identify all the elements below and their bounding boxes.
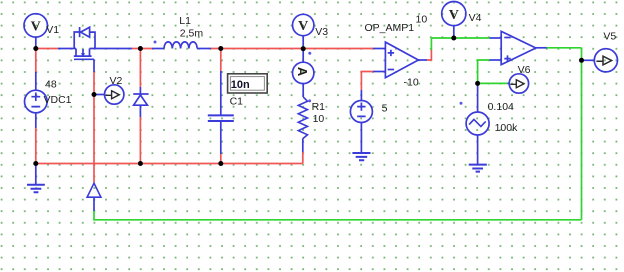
svg-text:5: 5 (382, 102, 388, 114)
wire: red drop junction to VDC1 (35, 49, 37, 73)
wire: op-amp1 minus red bend to source5 (361, 72, 373, 91)
svg-text:L1: L1 (179, 15, 191, 27)
op-amp U1 (385, 42, 418, 78)
wire: sine source bottom blue lead to ground (477, 135, 479, 164)
svg-text:V3: V3 (315, 26, 328, 38)
wire: C1 red lead to bottom rail (220, 154, 222, 164)
gate return triangle (87, 183, 101, 197)
wire: green gate return down and bottom rail (94, 211, 582, 220)
svg-text:V2: V2 (110, 75, 123, 87)
wire: V1 stub down to junction (35, 37, 37, 49)
wire: op-amp1 plus input blue lead (373, 48, 385, 50)
wire: diode D2 top blue stub (139, 87, 141, 94)
value box 10n (228, 74, 268, 93)
wire: C1 top red lead (220, 49, 222, 72)
voltage source VDC1 (25, 90, 48, 113)
wire: op-amp2 output blue stub (536, 47, 547, 49)
svg-text:V: V (31, 20, 41, 35)
voltmeter V3 (293, 14, 314, 35)
wire: red VDC1 to bottom rail (35, 128, 37, 164)
wire: red switch-node rail MOSFET to L1 (132, 48, 152, 50)
wire: bottom red rail (36, 163, 303, 165)
wire: diode D2 top red lead (139, 49, 141, 88)
wire: MOSFET drain blue lead (90, 48, 133, 50)
wire: VDC1 top blue lead (35, 72, 37, 90)
svg-text:A: A (295, 67, 310, 77)
wire: green top to op-amp2 output (547, 47, 582, 49)
diode D2 freewheel (133, 94, 148, 105)
svg-text:V6: V6 (518, 64, 531, 76)
svg-text:V: V (298, 19, 308, 34)
pin marker near V3 junction (308, 52, 311, 55)
sine source 100k (466, 112, 489, 135)
svg-text:OP_AMP1: OP_AMP1 (365, 22, 415, 34)
wire: C1 top blue lead (220, 71, 222, 115)
wire: V2 probe blue stub (96, 94, 105, 96)
inductor L1 (164, 42, 197, 49)
svg-text:V1: V1 (46, 24, 59, 36)
wire: R1 red lead to bottom rail (302, 152, 304, 164)
probe V5 (594, 49, 617, 72)
wire: gate blue lead down (93, 59, 95, 72)
voltmeter V1 (24, 14, 47, 37)
wire: diode D2 red lead to bottom rail (139, 117, 141, 164)
wire: red output rail L1 to op-amp input (211, 48, 373, 50)
svg-text:C1: C1 (230, 96, 244, 108)
wire: sine source top blue lead (477, 83, 479, 112)
svg-text:10n: 10n (231, 79, 250, 91)
probe V6 (509, 74, 528, 93)
svg-text:100k: 100k (495, 122, 519, 134)
pin marker near R1 (308, 99, 311, 102)
wire: below gate triangle blue (93, 197, 95, 211)
wire: V4 stub down (453, 26, 455, 38)
ground G1 (27, 185, 45, 192)
wire: VDC1 bottom blue lead (35, 113, 37, 128)
wire: junction to A probe (302, 49, 304, 63)
capacitor C1 (208, 115, 234, 121)
probe V2 (105, 85, 124, 104)
svg-text:VDC1: VDC1 (44, 94, 72, 106)
svg-text:48: 48 (45, 79, 57, 91)
svg-text:10: 10 (416, 13, 428, 25)
pin marker near sine source (460, 102, 463, 105)
wire: L1 left blue lead (152, 48, 164, 50)
wire: green right riser (581, 48, 583, 220)
wire: op-amp2 minus blue lead (490, 37, 502, 39)
wire: diode D2 bottom blue stub (139, 105, 141, 117)
svg-text:-10: -10 (404, 76, 419, 88)
svg-text:V: V (449, 8, 459, 23)
wire: green stub to V6 probe (478, 82, 508, 84)
wire: MOSFET source blue lead (58, 48, 76, 50)
wire: top rail red V1 junction to MOSFET source lead (36, 48, 58, 50)
wire: op-amp1 minus blue lead (373, 71, 385, 73)
voltmeter V4 (442, 2, 466, 26)
voltage source 5 (350, 101, 372, 123)
ground G3 sine (469, 165, 487, 172)
wire: source5 bottom blue lead to ground (360, 122, 362, 152)
svg-text:R1: R1 (312, 101, 326, 113)
wire: V3 stub down to rail (302, 36, 304, 49)
svg-text:V5: V5 (603, 30, 616, 42)
ground G2 source5 (352, 153, 370, 160)
wire: gate red drive line down (93, 72, 95, 183)
op-amp U2 (501, 31, 536, 64)
svg-text:0.104: 0.104 (488, 101, 514, 113)
wire: source5 top blue lead (360, 90, 362, 101)
svg-text:10: 10 (313, 113, 325, 125)
ammeter probe A (293, 62, 314, 83)
wire: C1 bottom blue lead (220, 121, 222, 154)
svg-text:2.5m: 2.5m (180, 28, 204, 40)
wire: A probe to R1 (302, 84, 304, 98)
wire: V6 blue stub (508, 82, 510, 84)
wire: green feedback to op-amp2 plus (478, 60, 490, 83)
MOSFET Q1 (74, 27, 95, 59)
wire: green bend to node V4 (431, 38, 489, 50)
pin marker near L1 (154, 41, 157, 44)
wire: op-amp1 output red bend up (427, 50, 431, 60)
wire: blue drop to ground G1 (35, 164, 37, 185)
wire: op-amp2 plus blue lead (490, 59, 502, 61)
wire: V5 probe blue stub (584, 59, 595, 61)
svg-text:V4: V4 (469, 12, 482, 24)
resistor R1 (298, 97, 307, 139)
wire: op-amp1 output blue stub (418, 59, 427, 61)
junction node dots (33, 36, 584, 167)
wire: R1 bottom blue lead (302, 139, 304, 153)
wire: L1 right blue lead (197, 48, 211, 50)
